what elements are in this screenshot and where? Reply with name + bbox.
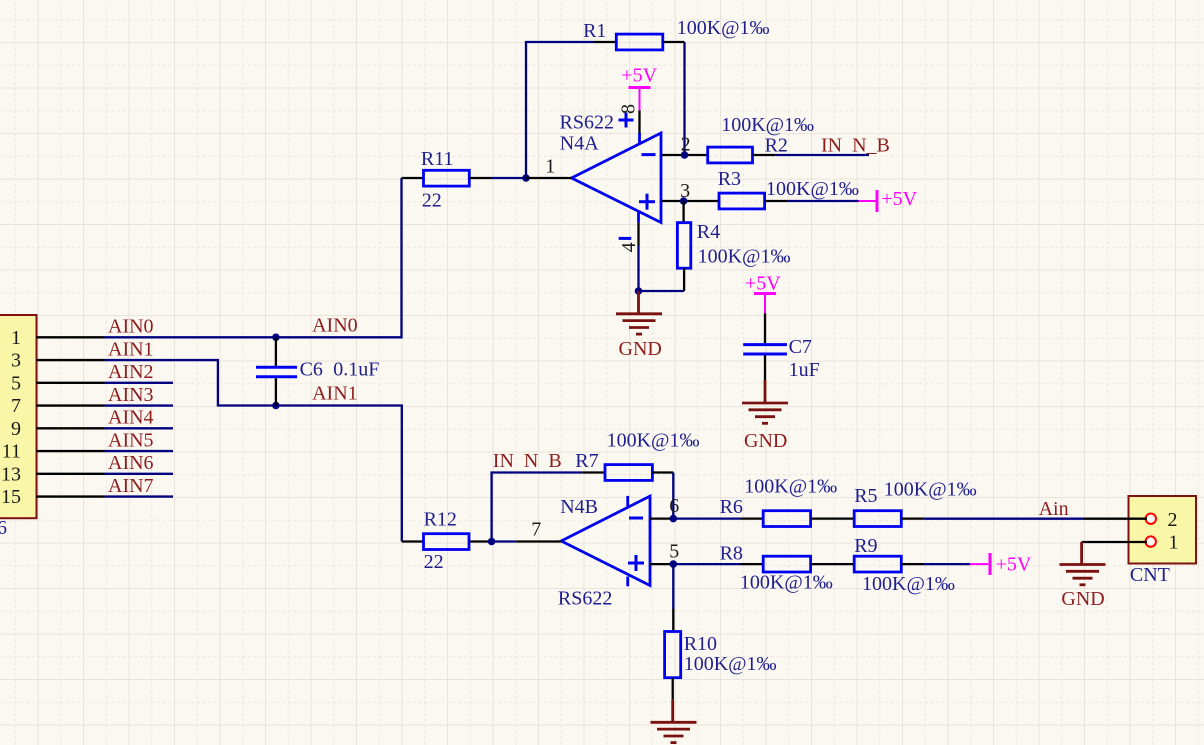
pin 3 <box>36 359 104 361</box>
wire R1 down to pin2 <box>683 42 685 155</box>
wire R12 to pin7 <box>492 540 516 542</box>
op-amp N4A power stub bottom <box>637 212 640 223</box>
resistor R11 <box>402 177 424 179</box>
svg-text:AIN2: AIN2 <box>108 361 154 383</box>
pin 7 <box>36 404 104 406</box>
op-amp N4A minus <box>642 153 656 156</box>
wire R3 to +5V <box>787 200 858 202</box>
wire pin6 to R6 <box>673 517 740 519</box>
svg-text:R12: R12 <box>424 508 457 530</box>
svg-text:IN_N_B: IN_N_B <box>821 135 890 157</box>
svg-text:+5V: +5V <box>881 188 917 210</box>
capacitor C6 plates <box>256 366 297 369</box>
svg-text:C7: C7 <box>789 336 812 358</box>
pin 11 <box>36 450 104 452</box>
wire AIN4 stub <box>105 427 174 429</box>
svg-text:CNT: CNT <box>1130 564 1170 586</box>
svg-text:100K@1‰: 100K@1‰ <box>740 572 833 594</box>
svg-text:5: 5 <box>669 540 679 562</box>
svg-text:6: 6 <box>0 517 7 539</box>
op-amp N4A plus <box>639 200 655 203</box>
pin 9 <box>36 427 104 429</box>
svg-text:R9: R9 <box>854 535 877 557</box>
wire R5 to CNT <box>924 518 1083 520</box>
CNT pin 2 lead <box>1083 518 1147 520</box>
wire AIN3 stub <box>105 404 174 406</box>
svg-text:AIN4: AIN4 <box>108 407 154 429</box>
svg-text:AIN5: AIN5 <box>108 429 154 451</box>
resistor R12 <box>402 540 424 542</box>
svg-text:1: 1 <box>11 327 21 349</box>
svg-text:2: 2 <box>1168 509 1178 531</box>
svg-text:22: 22 <box>422 190 442 212</box>
connector P6 body <box>0 315 37 518</box>
svg-text:AIN1: AIN1 <box>312 382 358 404</box>
ground GND (R10) <box>671 700 674 722</box>
svg-text:100K@1‰: 100K@1‰ <box>884 479 977 501</box>
svg-text:1: 1 <box>545 156 555 178</box>
resistor R10 <box>672 609 674 632</box>
power +5V (N4A) <box>629 86 651 89</box>
op-amp N4B power stub bottom <box>626 577 629 587</box>
svg-text:R4: R4 <box>697 221 720 243</box>
wire feedback up to R1 <box>526 42 594 178</box>
wire AIN1 run <box>105 360 402 541</box>
wire AIN7 stub <box>105 495 174 497</box>
junction pin1 <box>522 174 530 182</box>
svg-text:22: 22 <box>424 551 444 573</box>
junction pin3 <box>680 197 688 205</box>
op-amp N4B plus <box>628 562 644 565</box>
op-amp N4A body <box>572 133 662 223</box>
svg-text:4: 4 <box>618 242 640 252</box>
resistor R8 <box>741 563 764 565</box>
svg-text:7: 7 <box>11 395 21 417</box>
resistor R5 <box>854 511 901 527</box>
svg-text:RS622: RS622 <box>558 588 612 610</box>
svg-text:AIN6: AIN6 <box>108 452 154 474</box>
wire feedback up to R7 <box>492 473 583 542</box>
svg-text:AIN3: AIN3 <box>108 384 154 406</box>
wire pin5 down to R10 <box>672 564 674 609</box>
op-amp N4B power stub top <box>626 496 629 507</box>
capacitor C6 top lead <box>275 337 277 366</box>
svg-text:R11: R11 <box>421 148 454 170</box>
svg-text:100K@1‰: 100K@1‰ <box>677 17 770 39</box>
CNT pin 2 pad <box>1146 514 1156 524</box>
svg-text:R5: R5 <box>854 485 877 507</box>
svg-text:C6: C6 <box>300 359 323 381</box>
pin 5 <box>650 563 673 565</box>
svg-text:13: 13 <box>1 463 21 485</box>
ground GND (C7) <box>764 380 767 403</box>
pin 13 <box>36 473 104 475</box>
junction pin6 <box>670 515 678 523</box>
svg-text:15: 15 <box>1 486 21 508</box>
op-amp N4B minus <box>629 517 643 520</box>
pin 2 <box>661 154 708 156</box>
junction pin4 <box>635 287 643 295</box>
svg-text:3: 3 <box>11 350 21 372</box>
junction pin7 <box>488 538 496 546</box>
pin 3 <box>661 200 719 202</box>
svg-text:0.1uF: 0.1uF <box>333 359 379 381</box>
wire AIN6 stub <box>105 473 174 475</box>
svg-text:N4A: N4A <box>560 133 599 155</box>
svg-text:11: 11 <box>2 441 21 463</box>
pin 4 <box>637 223 639 246</box>
svg-text:7: 7 <box>531 519 541 541</box>
resistor R9 <box>854 556 901 572</box>
svg-text:R6: R6 <box>720 496 743 518</box>
capacitor C7 bottom lead <box>764 356 766 381</box>
svg-text:100K@1‰: 100K@1‰ <box>698 245 791 267</box>
svg-text:+5V: +5V <box>996 553 1032 575</box>
svg-text:+5V: +5V <box>621 64 657 86</box>
connector CNT body <box>1129 496 1197 564</box>
wire R2 to net label <box>775 154 869 156</box>
wire AIN2 stub <box>105 382 174 384</box>
svg-text:100K@1‰: 100K@1‰ <box>744 476 837 498</box>
svg-text:+5V: +5V <box>745 272 781 294</box>
resistor R6 <box>741 517 764 519</box>
pin 1 <box>36 336 104 338</box>
resistor R2 <box>708 147 753 163</box>
junction AIN1/C6 <box>272 402 280 410</box>
ground GND (N4A) <box>637 291 640 313</box>
svg-text:R1: R1 <box>583 20 606 42</box>
svg-text:RS622: RS622 <box>560 111 614 133</box>
V+ marker <box>619 119 634 122</box>
capacitor C7 plates <box>743 343 787 346</box>
junction pin5 <box>670 560 678 568</box>
resistor R4 <box>682 201 684 223</box>
svg-text:100K@1‰: 100K@1‰ <box>721 114 814 136</box>
pin 8 <box>638 111 640 134</box>
wire pin4 to junction <box>637 246 639 292</box>
svg-text:AIN0: AIN0 <box>108 316 154 338</box>
CNT pin 1 pad <box>1146 536 1156 546</box>
pin 5 <box>36 382 104 384</box>
resistor R3 <box>719 193 765 209</box>
resistor R7 <box>582 471 605 473</box>
pin 1 <box>526 177 572 179</box>
svg-text:5: 5 <box>11 372 21 394</box>
wire R7 down to pin6 <box>672 473 674 519</box>
pin 6 <box>650 517 673 519</box>
svg-text:1: 1 <box>1169 532 1179 554</box>
wire AIN0 run <box>105 178 402 337</box>
svg-text:N4B: N4B <box>560 496 598 518</box>
junction pin2 <box>681 151 689 159</box>
svg-text:100K@1‰: 100K@1‰ <box>607 429 700 451</box>
wire R9 to +5V <box>924 563 970 565</box>
op-amp N4A power stub top <box>638 133 641 144</box>
svg-text:GND: GND <box>619 338 662 360</box>
svg-text:R2: R2 <box>765 135 788 157</box>
wire R11 to pin1 <box>492 177 526 179</box>
svg-text:R3: R3 <box>718 168 741 190</box>
svg-text:AIN7: AIN7 <box>108 475 154 497</box>
wire R4 to pin4 <box>639 290 685 292</box>
svg-text:1uF: 1uF <box>789 359 820 381</box>
wire pin5 to R8 <box>673 563 740 565</box>
V- marker <box>619 237 632 240</box>
svg-text:IN_N_B: IN_N_B <box>493 450 562 472</box>
svg-text:8: 8 <box>618 104 640 114</box>
svg-text:Ain: Ain <box>1039 498 1069 520</box>
svg-text:100K@1‰: 100K@1‰ <box>862 573 955 595</box>
svg-text:100K@1‰: 100K@1‰ <box>684 653 777 675</box>
junction AIN0/C6 <box>272 334 280 342</box>
op-amp N4B body <box>561 496 650 585</box>
svg-text:GND: GND <box>1061 588 1104 610</box>
pin 15 <box>36 495 104 497</box>
CNT pin 1 lead <box>1082 541 1147 543</box>
svg-text:GND: GND <box>744 430 787 452</box>
svg-text:R8: R8 <box>720 542 743 564</box>
pin 7 <box>516 540 562 542</box>
resistor R1 <box>594 41 617 43</box>
svg-text:9: 9 <box>11 418 21 440</box>
svg-text:R10: R10 <box>684 633 717 655</box>
svg-text:R7: R7 <box>575 450 598 472</box>
svg-text:AIN1: AIN1 <box>108 338 154 360</box>
svg-text:100K@1‰: 100K@1‰ <box>766 178 859 200</box>
svg-text:6: 6 <box>669 495 679 517</box>
capacitor C6 bottom lead <box>275 378 277 405</box>
power +5V (R3) <box>859 200 876 202</box>
svg-text:AIN0: AIN0 <box>312 314 358 336</box>
capacitor C7 top lead <box>764 313 766 343</box>
power +5V (R9) <box>970 563 988 565</box>
ground GND (CNT) <box>1080 542 1083 564</box>
wire AIN5 stub <box>105 450 174 452</box>
